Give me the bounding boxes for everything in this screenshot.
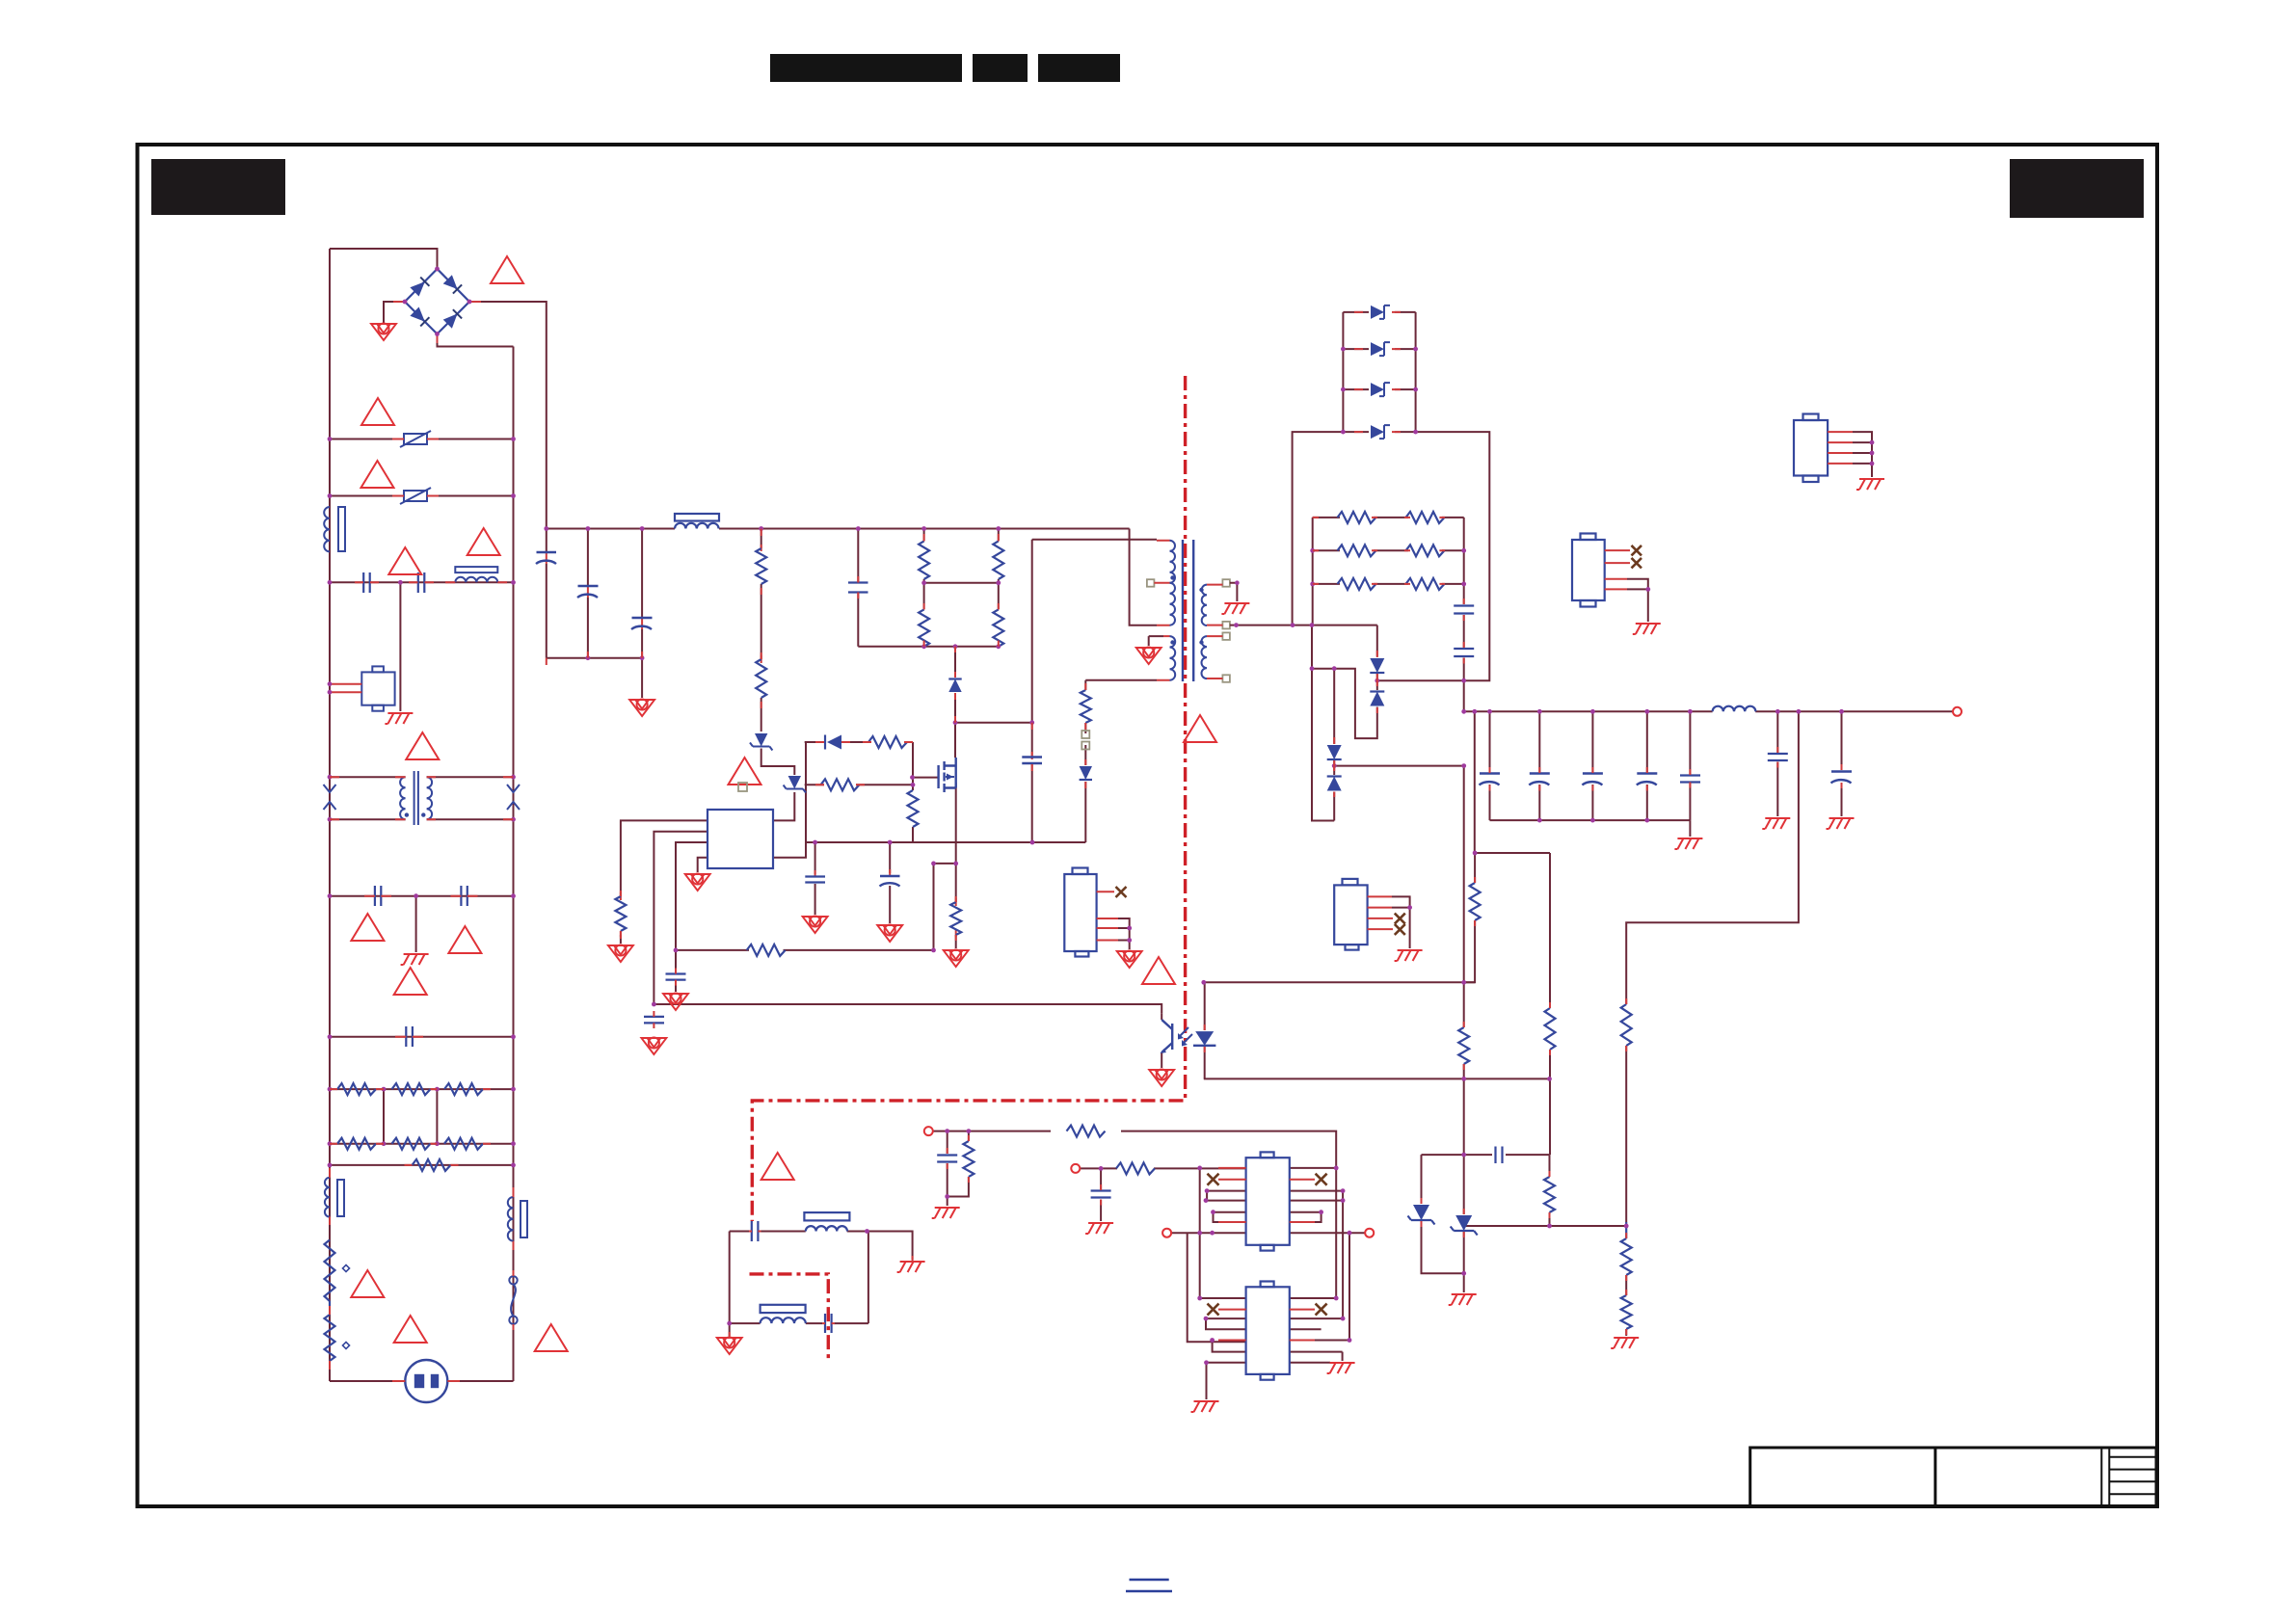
ground C23 [1762, 818, 1790, 829]
inductor L5 (PFC) with core [675, 514, 719, 529]
capacitor CX1 [406, 1026, 413, 1047]
diode D7 [1080, 766, 1092, 780]
capacitor C12 [805, 877, 825, 883]
opto transistor [1161, 1020, 1172, 1052]
capacitor C24 [1831, 772, 1853, 784]
warning W9 [394, 968, 427, 995]
resistor R6 [444, 1138, 483, 1150]
ground U4 left [1191, 1401, 1219, 1412]
resistor R37 [1067, 1126, 1106, 1137]
wire startup resistor chain [761, 529, 762, 732]
wire source sense [955, 864, 957, 948]
wire left AC bus [329, 249, 331, 1381]
capacitor C28 [752, 1221, 759, 1241]
resistor R39 [963, 1141, 974, 1177]
U3/U4 pin stubs [1218, 1168, 1315, 1341]
pin stubs (red) [547, 541, 1170, 939]
common-mode choke T1 [400, 771, 432, 825]
wire bulk cap C7 branch [641, 529, 643, 658]
capacitor C17 [1454, 649, 1474, 656]
wire bridge top feed [330, 249, 438, 269]
wire sense bus [806, 841, 1085, 843]
pads aux divider [1081, 731, 1089, 750]
wire stack out [1416, 432, 1490, 680]
resistor R29 [1406, 578, 1445, 590]
diode D9 [1371, 342, 1390, 356]
resistor R34 [1470, 883, 1481, 920]
wire post-filter cap branches [1777, 711, 1841, 816]
wire filter to ground [729, 1323, 731, 1336]
capacitor C20 [1582, 774, 1603, 785]
wire pair B [1333, 669, 1335, 821]
resistor R7 [413, 1159, 451, 1171]
primary tap pad [1147, 579, 1155, 587]
wire resistor row 1 [330, 1088, 514, 1090]
capacitor C27 [1091, 1191, 1111, 1198]
diode D14 [1327, 745, 1342, 759]
resistor R3 [444, 1083, 483, 1095]
warning W13 with pad [729, 758, 761, 785]
output terminal [1953, 707, 1962, 716]
wire RCD row upper [805, 741, 913, 743]
resistor R27 [1406, 545, 1445, 556]
ground C15 [641, 1037, 666, 1054]
warning W14 [1142, 957, 1175, 984]
resistor R10 [756, 548, 766, 584]
wire bridge right to bulk bus [469, 302, 547, 529]
wire on/off input [933, 1131, 1336, 1298]
wire opto rail [1204, 981, 1475, 983]
inductor L8 with core [761, 1305, 806, 1323]
resistor R15 [919, 541, 929, 579]
wire diode stack left bus [1342, 312, 1344, 432]
resistor R12 [868, 736, 907, 748]
wire pair A bottom loop [1312, 669, 1377, 738]
wire input R branch [948, 1131, 969, 1197]
zener ZD3 [1408, 1205, 1435, 1225]
regulator U3 [1246, 1152, 1290, 1250]
no-connect marks [1208, 1174, 1327, 1316]
diode D8 [1371, 306, 1390, 319]
wire output cap branches [1489, 711, 1491, 820]
warning W10 [351, 1270, 384, 1297]
wire OVP branch [1626, 711, 1799, 1336]
phase arrows on buses [324, 785, 521, 810]
bottom footer marks [1126, 1580, 1172, 1591]
capacitor C25 [1496, 1147, 1503, 1164]
wire cap-filter row [330, 581, 514, 583]
wire secondary rail [1230, 625, 1377, 656]
test point TP1 [924, 1127, 933, 1135]
diode D6 (clamp) [948, 679, 961, 693]
secondary pads [1222, 579, 1230, 682]
resistor R24 [1338, 512, 1376, 523]
redacted title text blocks [151, 54, 2144, 218]
ground C12 [803, 916, 828, 933]
wire clamp diode branch [954, 647, 956, 723]
wire row links [384, 1089, 437, 1144]
resistor R4 [337, 1138, 376, 1150]
connector CN3 (bottom left) [1064, 868, 1096, 957]
wire primary top link [1032, 539, 1157, 541]
MOSFET Q1 [939, 758, 956, 792]
resistor R38 [1116, 1162, 1155, 1174]
transformer core [1183, 540, 1193, 681]
wire zener link to IC [761, 749, 795, 821]
wire LED cathode [1204, 1047, 1206, 1078]
resistor R17 [919, 609, 929, 646]
ground C27 [1085, 1223, 1113, 1234]
wire Y-cap midpoint to earth [415, 896, 417, 952]
wire U4 pins [1290, 1297, 1336, 1299]
resistor R8 (NTC) [325, 1240, 335, 1307]
wire filter right [868, 1232, 869, 1324]
resistor R28 [1338, 578, 1376, 590]
capacitor C22 [1680, 776, 1700, 783]
wire res block rows [1313, 517, 1464, 519]
wire U3 pin loops left [1200, 1168, 1246, 1298]
capacitor C18 [1480, 774, 1501, 785]
wire fb divider [1464, 853, 1475, 982]
inductor L4 with core [508, 1197, 527, 1241]
wire cap C9 branch [889, 842, 891, 923]
warning W5 [467, 528, 500, 555]
wire return vertical [1312, 625, 1334, 821]
warning W12 [535, 1324, 568, 1351]
isolation barrier [750, 376, 1186, 1360]
resistor R32 [1621, 1295, 1632, 1329]
wire Y-cap row [330, 895, 514, 897]
capacitor C14 [666, 974, 686, 980]
capacitor C15 [644, 1017, 664, 1024]
wire varistor row 1 [330, 439, 514, 440]
ground R22 [608, 945, 633, 962]
wire fb resistor lower [1463, 982, 1465, 1078]
warning W6 [406, 732, 439, 759]
plug P1 [405, 1360, 447, 1402]
resistor R9 (NTC) [325, 1315, 335, 1361]
diode D12 [1370, 658, 1384, 673]
wire output rail [1464, 710, 1953, 712]
connector CN2 (mid right) [1572, 534, 1605, 607]
resistor R14 [908, 790, 919, 827]
PFC controller U1 [707, 810, 773, 868]
wire filter1 top [730, 1232, 913, 1261]
wire stack to rail [1293, 432, 1344, 625]
wire LED anode [1204, 982, 1206, 1030]
connector CN4 (bottom right) [1334, 879, 1367, 950]
wire clamp R1b [998, 529, 1000, 610]
wire dim input [1080, 1167, 1245, 1169]
resistor R13 [821, 779, 860, 790]
capacitor C21 [1637, 774, 1658, 785]
ground opto emitter [1149, 1069, 1174, 1086]
inductor L6 (output) [1713, 706, 1756, 712]
resistor R35 [1458, 1027, 1469, 1064]
wire resistor row 2 [330, 1143, 514, 1145]
diode D15 [1327, 777, 1342, 791]
ground C14 [663, 993, 688, 1010]
wire RCD row lower [805, 784, 913, 785]
wire bulk cap C5 branch [546, 529, 547, 658]
wire bridge left to ground [384, 302, 405, 324]
wire main DC bus [547, 528, 1130, 530]
wire right AC bus [513, 347, 515, 1382]
wire filter2 bottom [730, 1322, 868, 1324]
wire clamp R1a [924, 529, 999, 610]
aux winding [1170, 636, 1176, 680]
wire cap C8 branch [814, 842, 816, 915]
capacitor C16 [1454, 606, 1474, 614]
wire caps gnd bus [1490, 820, 1691, 837]
ground C26 [932, 1208, 960, 1218]
connector CN1 (top right) [1794, 414, 1828, 483]
wire feedback tap [1334, 766, 1464, 983]
warning W7 [351, 914, 384, 941]
border frame [138, 145, 2158, 1506]
opto LED [1193, 1031, 1215, 1046]
capacitor C7 (bulk) [631, 618, 653, 629]
ground R32 [1611, 1338, 1639, 1348]
resistor R18 [993, 609, 1003, 646]
resistor R26 [1338, 545, 1376, 556]
wire res block left bus [1312, 518, 1314, 625]
wire resistor row 3 [330, 1164, 514, 1166]
capacitor C5 (bulk) [536, 552, 556, 564]
inductor L2 with core [455, 567, 497, 582]
wire shunt loop [1422, 1155, 1464, 1292]
capacitor C13 [880, 876, 900, 887]
resistor R33 [1545, 1008, 1556, 1050]
resistor R5 [392, 1138, 431, 1150]
resistor R25 [1406, 512, 1445, 523]
primary winding [1170, 541, 1176, 583]
regulator U4 [1246, 1282, 1290, 1380]
resistor R36 [1544, 1177, 1555, 1212]
ground U1 pin [685, 873, 710, 891]
red lead stubs [330, 312, 1842, 1381]
capacitor C23 [1768, 754, 1788, 760]
secondary winding upper [1202, 585, 1207, 625]
capacitor C1 [363, 572, 370, 593]
wire clamp bottom [858, 647, 999, 648]
resistor R20 (FB) [747, 945, 786, 956]
wire IC pin2 [654, 832, 707, 1004]
diode D11 [1371, 425, 1390, 439]
wire IC gnd pin [698, 858, 707, 872]
warning W4 [388, 547, 421, 574]
ground filter2 [717, 1337, 742, 1354]
earth ground Y-caps [401, 954, 429, 965]
wire diode stack right bus [1415, 312, 1417, 432]
diode D13 [1370, 692, 1384, 706]
diode D10 [1371, 383, 1390, 396]
wire X-cap row [330, 1036, 514, 1038]
test point TP4 [1365, 1229, 1374, 1237]
wire comp cap row [1464, 1155, 1627, 1226]
wire junction to earth [399, 582, 401, 711]
capacitor C11 (snubber) [1022, 758, 1042, 764]
test point TP3 [1162, 1229, 1171, 1237]
diode D1 (bridge UL) [410, 281, 424, 296]
wire dim cap branch [1100, 1168, 1102, 1221]
wire FB resistor row [676, 949, 934, 951]
warning W3 [361, 461, 394, 488]
warning W15 [761, 1153, 794, 1180]
wire pair A node [1377, 674, 1464, 690]
ground filter1 [897, 1262, 925, 1272]
wire filter left [729, 1232, 731, 1324]
winding dots [1170, 575, 1203, 644]
test point TP2 [1071, 1164, 1080, 1173]
wire MOSFET source [934, 783, 956, 950]
aux top to chassis ground [1149, 636, 1163, 646]
inductor L1 with core [324, 507, 345, 551]
resistor R31 [1621, 1222, 1632, 1275]
wire stack rows [1343, 311, 1415, 313]
warning W16 [1184, 715, 1216, 742]
diode D4 (bridge LR) [443, 314, 458, 329]
wire bridge bottom [438, 334, 514, 347]
component box U10 [361, 666, 394, 710]
resistor R16 [993, 541, 1003, 579]
varistor RV1 [400, 431, 431, 447]
wire caps bottom bus [547, 658, 642, 698]
resistor R21 (aux) [1081, 690, 1091, 723]
diode D3 (bridge LL) [410, 307, 424, 322]
ground C24 [1827, 818, 1855, 829]
wire bottom mains [330, 1380, 514, 1382]
warning W11 [394, 1316, 427, 1343]
varistor RV2 [400, 488, 431, 504]
wire RCD left link [773, 742, 806, 858]
resistor R1 [337, 1083, 376, 1095]
wire gate node [913, 777, 939, 779]
capacitor C6 (bulk) [577, 586, 599, 598]
wire clamp cap branch [857, 529, 859, 647]
capacitor CY1 [375, 886, 381, 906]
resistor R22 (startup lower) [615, 896, 626, 931]
wire aux sense chain [1085, 680, 1157, 842]
capacitor C19 [1529, 774, 1550, 785]
wire snubber vertical [1031, 540, 1033, 842]
wire photo transistor [1161, 1014, 1162, 1068]
ground shunt [1449, 1294, 1477, 1305]
inductor L3 with core [325, 1178, 344, 1217]
secondary winding lower [1202, 636, 1208, 678]
wire opto drive [654, 1004, 1161, 1014]
resistor R2 [392, 1083, 431, 1095]
diode D5 [825, 735, 841, 750]
wire fb upper branch [1475, 711, 1550, 1155]
capacitor C29 [825, 1314, 832, 1333]
warning W1 [491, 256, 523, 283]
zener ZD2 [784, 776, 806, 793]
sense resistor R19 [950, 902, 961, 935]
wire IC pin1 [621, 820, 707, 944]
warning W8 [448, 926, 481, 953]
wire U3 pin loops right [1290, 1167, 1336, 1169]
resistor R11 [756, 659, 766, 698]
switch SW1 [509, 1276, 517, 1324]
inductor L7 with core [804, 1212, 849, 1231]
ground bulk caps [629, 699, 654, 716]
wire reg bus [1204, 1078, 1550, 1155]
ground filter caps [1674, 838, 1702, 849]
wire bus corner to primary bottom [1130, 529, 1157, 625]
wire choke top [330, 776, 514, 778]
bridge rectifier BD1 [405, 269, 469, 334]
diode D2 (bridge UR) [443, 275, 458, 289]
ground sense resistor [944, 949, 969, 967]
wire bulk cap C6 branch [587, 529, 589, 658]
wire res block right bus [1463, 518, 1465, 711]
zener ZD1 [750, 733, 772, 751]
ground U4 right [1327, 1363, 1355, 1373]
wire input cap branch [947, 1131, 948, 1206]
secondary top earth [1230, 583, 1238, 601]
capacitor C2 [418, 572, 425, 593]
wire RCD right vertical [912, 742, 914, 842]
title block [1750, 1448, 2156, 1506]
ground C13 [877, 924, 902, 942]
resistor R30 [1621, 1004, 1632, 1046]
capacitor CY2 [461, 886, 467, 906]
wire varistor row 2 [330, 495, 514, 497]
wire choke bottom [330, 818, 514, 820]
wire drain node [955, 723, 1032, 758]
warning W2 [361, 398, 394, 425]
capacitor C26 [937, 1156, 957, 1162]
wire IC pin3 [676, 842, 707, 992]
zener ZD4 [1451, 1215, 1478, 1236]
earth ground below box [385, 713, 413, 724]
ground at bridge minus [371, 323, 396, 340]
capacitor C10 (clamp) [848, 583, 868, 593]
box pin wires [330, 684, 361, 693]
opto light arrows [1179, 1027, 1192, 1044]
